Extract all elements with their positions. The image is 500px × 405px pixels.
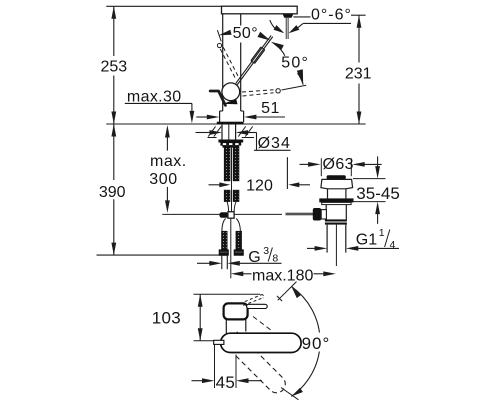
svg-text:51: 51 — [261, 100, 280, 117]
svg-text:50°: 50° — [233, 25, 258, 42]
svg-text:50°: 50° — [281, 55, 309, 72]
svg-text:4: 4 — [390, 239, 396, 251]
svg-text:Ø63: Ø63 — [323, 156, 354, 173]
svg-text:390: 390 — [99, 184, 126, 201]
svg-text:103: 103 — [152, 309, 181, 328]
svg-text:G1: G1 — [356, 232, 377, 249]
svg-text:35-45: 35-45 — [356, 184, 400, 203]
svg-text:253: 253 — [100, 58, 127, 75]
svg-text:Ø34: Ø34 — [258, 135, 291, 152]
svg-text:max.30: max.30 — [127, 88, 182, 105]
svg-text:3: 3 — [263, 245, 269, 257]
svg-text:G: G — [248, 249, 260, 266]
svg-text:300: 300 — [149, 171, 177, 188]
svg-text:120: 120 — [246, 178, 273, 195]
svg-text:90°: 90° — [302, 334, 331, 353]
svg-text:max.: max. — [150, 153, 187, 170]
svg-text:45: 45 — [216, 373, 236, 392]
svg-text:231: 231 — [345, 66, 372, 83]
svg-text:max.180: max.180 — [252, 267, 313, 284]
svg-text:0°-6°: 0°-6° — [311, 6, 352, 23]
svg-text:8: 8 — [272, 253, 278, 265]
svg-text:1: 1 — [379, 227, 385, 239]
